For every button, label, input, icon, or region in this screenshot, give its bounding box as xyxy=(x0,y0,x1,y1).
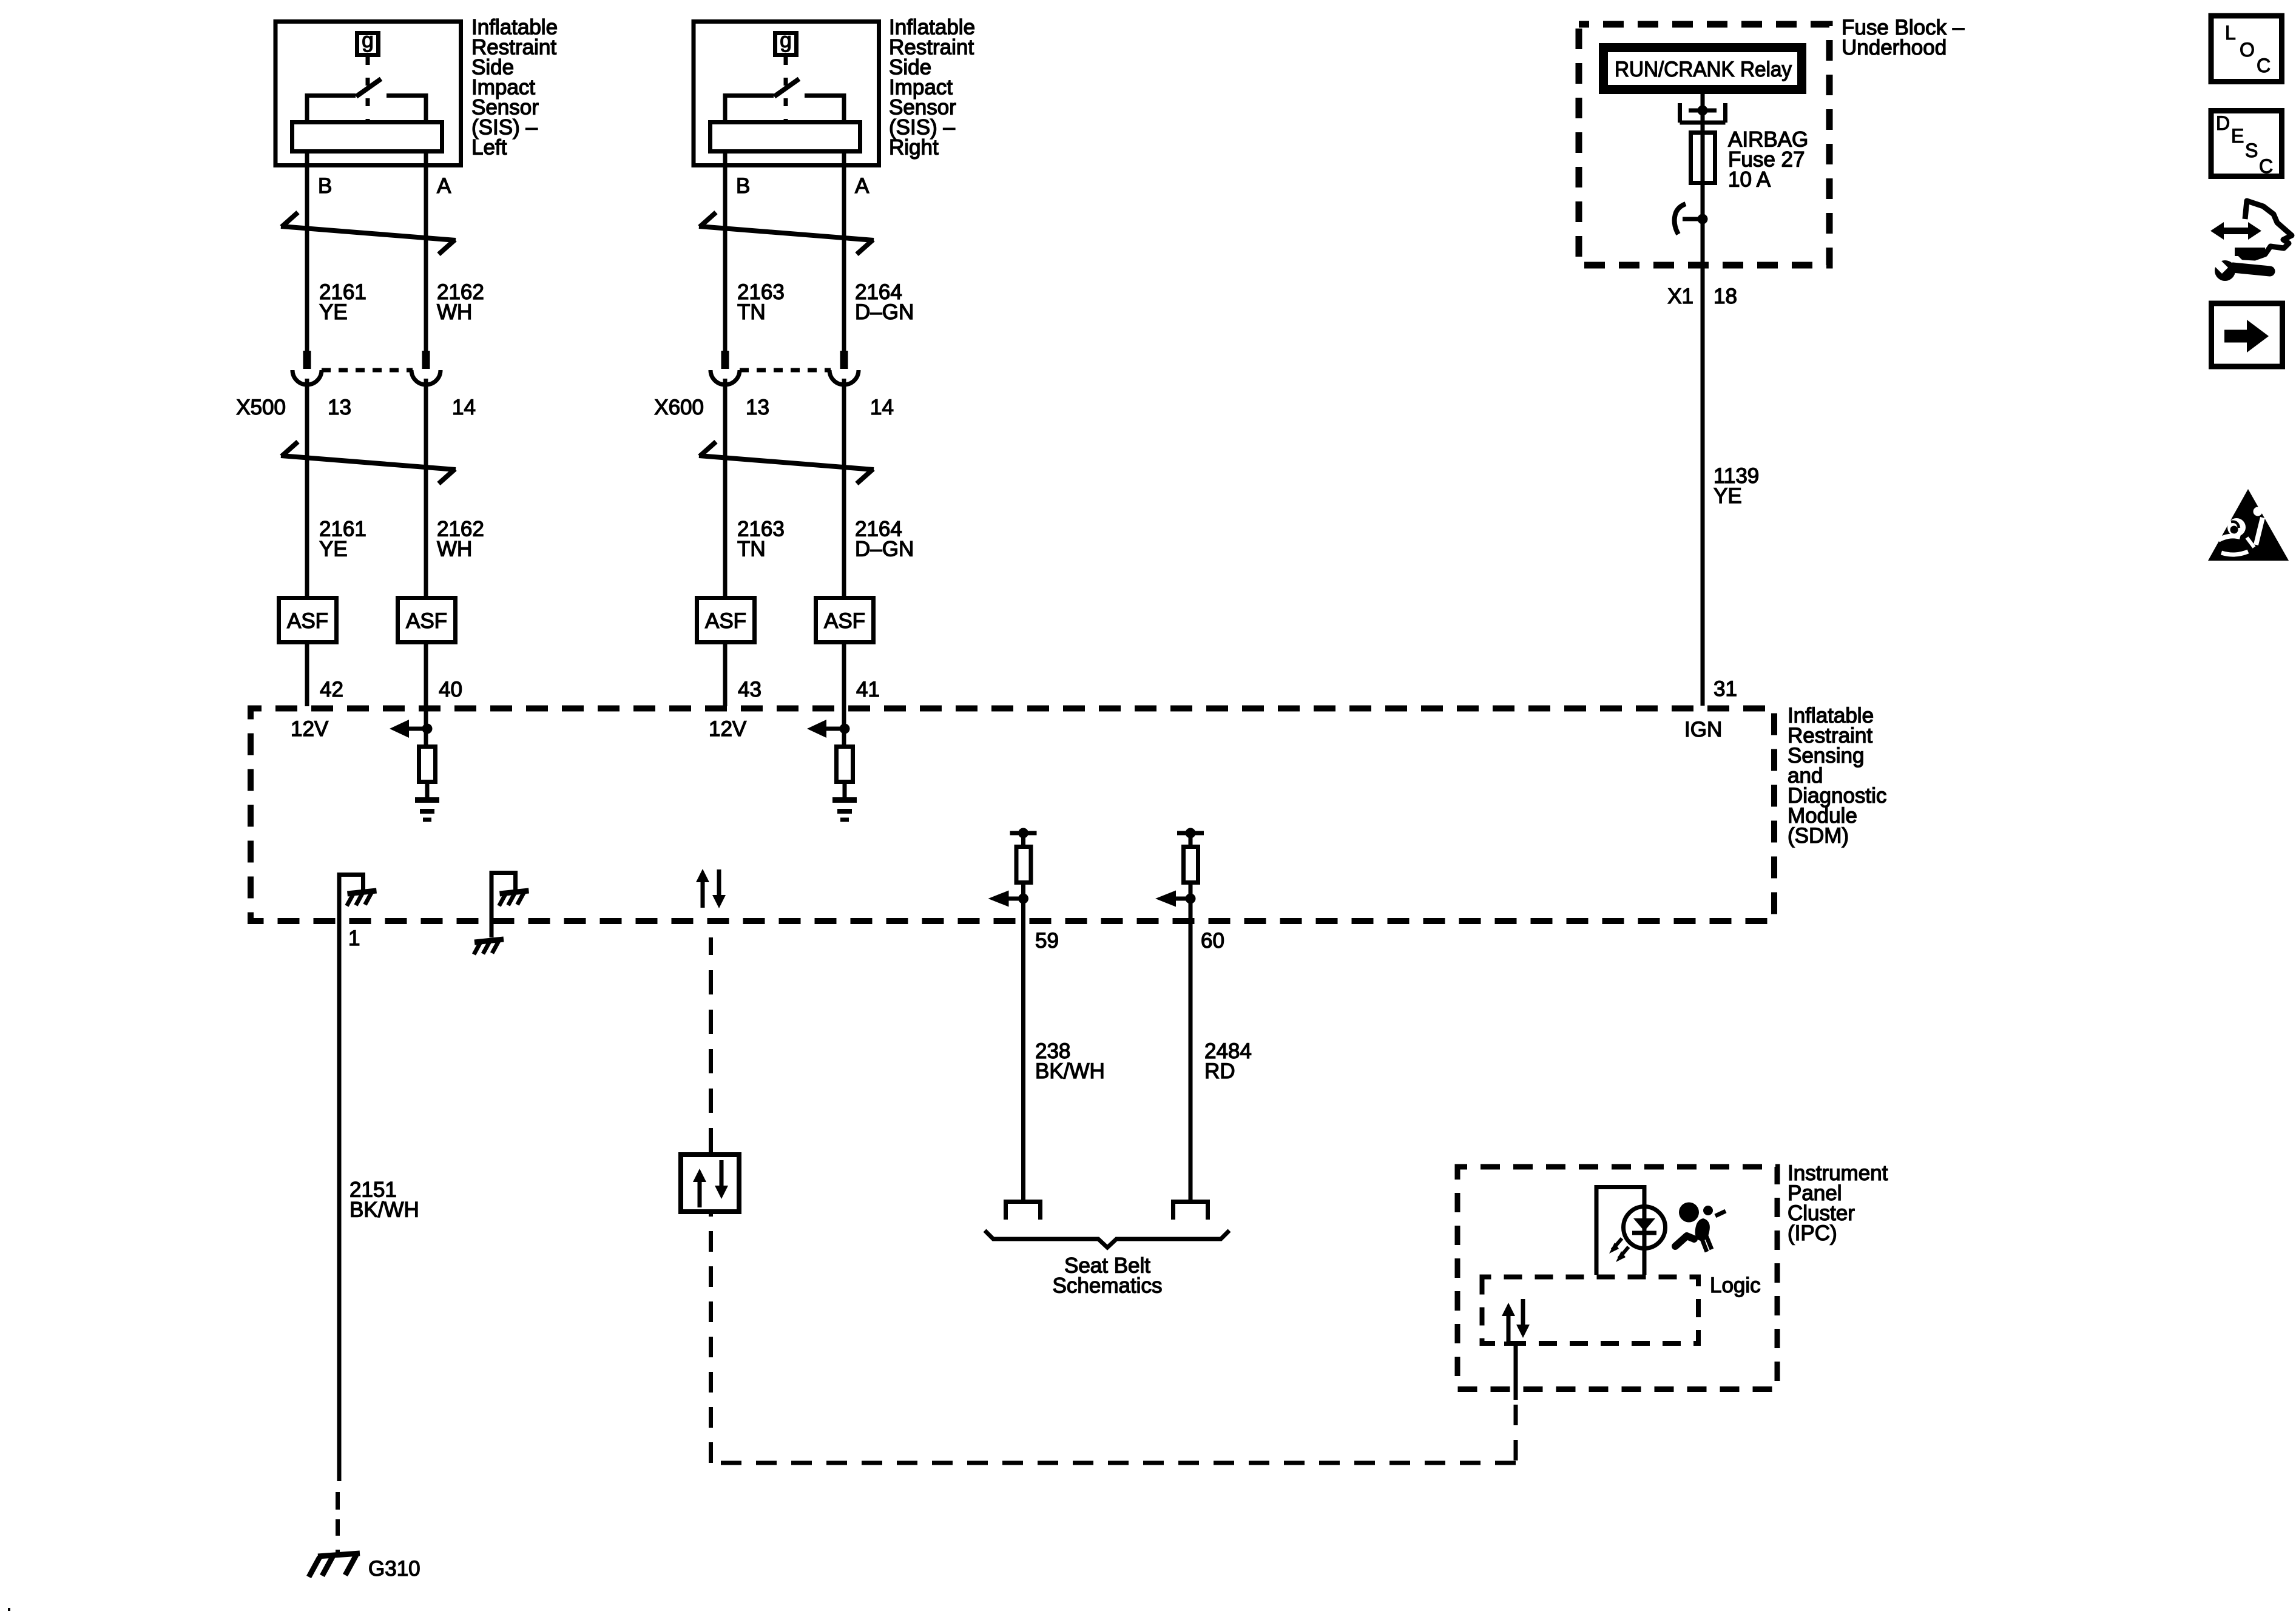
svg-text:B: B xyxy=(318,174,332,198)
svg-text:18: 18 xyxy=(1714,285,1737,308)
svg-text:Right: Right xyxy=(889,136,939,160)
svg-text:42: 42 xyxy=(320,678,343,701)
svg-text:G310: G310 xyxy=(368,1557,420,1581)
svg-text:1: 1 xyxy=(348,927,360,950)
svg-text:E: E xyxy=(2231,125,2244,147)
svg-text:60: 60 xyxy=(1201,929,1224,953)
svg-text:(IPC): (IPC) xyxy=(1788,1221,1837,1245)
svg-text:14: 14 xyxy=(870,396,894,419)
svg-text:Schematics: Schematics xyxy=(1053,1274,1163,1298)
svg-text:A: A xyxy=(437,174,451,198)
svg-text:Left: Left xyxy=(471,136,507,160)
svg-text:Underhood: Underhood xyxy=(1842,36,1947,59)
svg-text:43: 43 xyxy=(738,678,761,701)
svg-text:31: 31 xyxy=(1714,677,1737,701)
svg-text:13: 13 xyxy=(746,396,769,419)
svg-text:X600: X600 xyxy=(654,396,704,419)
svg-text:14: 14 xyxy=(452,396,476,419)
svg-text:13: 13 xyxy=(328,396,351,419)
svg-text:10 A: 10 A xyxy=(1728,168,1771,192)
svg-text:WH: WH xyxy=(437,538,472,561)
svg-text:12V: 12V xyxy=(709,717,747,741)
svg-text:40: 40 xyxy=(439,678,462,701)
svg-text:WH: WH xyxy=(437,300,472,324)
svg-text:X1: X1 xyxy=(1667,285,1693,308)
svg-text:O: O xyxy=(2240,39,2255,61)
svg-text:59: 59 xyxy=(1035,929,1059,953)
svg-text:TN: TN xyxy=(737,538,766,561)
svg-text:YE: YE xyxy=(319,300,348,324)
svg-text:RD: RD xyxy=(1204,1059,1235,1083)
svg-text:IGN: IGN xyxy=(1684,718,1722,741)
svg-text:RUN/CRANK Relay: RUN/CRANK Relay xyxy=(1615,58,1792,81)
svg-text:C: C xyxy=(2259,155,2273,177)
svg-text:YE: YE xyxy=(319,538,348,561)
svg-text:12V: 12V xyxy=(291,717,329,741)
svg-text:C: C xyxy=(2257,55,2271,76)
svg-text:BK/WH: BK/WH xyxy=(1035,1059,1105,1083)
svg-text:Logic: Logic xyxy=(1710,1274,1761,1297)
svg-text:41: 41 xyxy=(856,678,880,701)
svg-text:B: B xyxy=(736,174,750,198)
svg-text:X500: X500 xyxy=(236,396,286,419)
svg-text:YE: YE xyxy=(1714,484,1742,508)
svg-text:D: D xyxy=(2216,112,2230,134)
svg-text:L: L xyxy=(2225,22,2236,44)
svg-text:D–GN: D–GN xyxy=(855,300,914,324)
svg-text:S: S xyxy=(2245,140,2258,161)
svg-text:(SDM): (SDM) xyxy=(1788,824,1849,848)
svg-text:D–GN: D–GN xyxy=(855,538,914,561)
svg-text:BK/WH: BK/WH xyxy=(349,1198,419,1222)
svg-text:A: A xyxy=(855,174,869,198)
svg-text:TN: TN xyxy=(737,300,766,324)
